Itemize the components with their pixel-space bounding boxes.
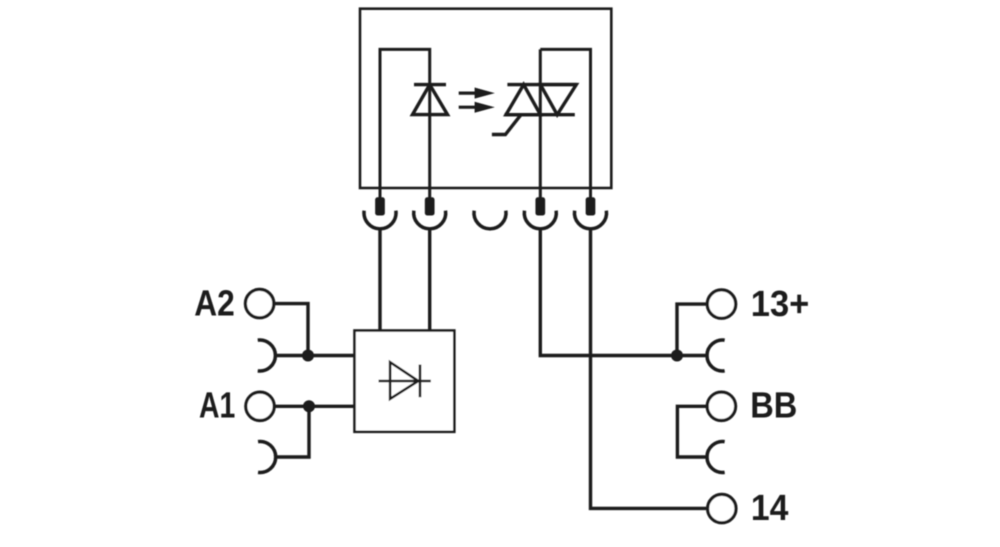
wire: A2 circle down to A2 node <box>274 304 308 356</box>
plug pin 2 <box>425 197 435 215</box>
wire: input staple (pin1 riser, top link, pin2 riser through LED) <box>380 49 430 198</box>
svg-text:A1: A1 <box>199 385 235 426</box>
clamp arc A2 <box>258 340 276 371</box>
socket 4 arc <box>524 211 556 229</box>
svg-text:14: 14 <box>751 487 789 528</box>
wire: A1 arc up to A1 node <box>276 406 309 457</box>
wire: socket 5 down and across to terminal 14 <box>591 229 709 508</box>
terminal circle A1 <box>246 392 274 420</box>
diode D2 anode/cathode line <box>379 380 431 383</box>
wire: socket 4 down and across to 13+ socket <box>540 229 707 356</box>
wire: BB bracket <box>677 406 707 457</box>
plug pin 5 stem <box>589 188 592 199</box>
plug pin 2 stem <box>428 188 431 199</box>
wire: socket 2 to diode box top <box>428 229 431 332</box>
photo-triac U1 left triangle <box>506 85 540 115</box>
plug pin 1 <box>375 197 385 215</box>
svg-text:13+: 13+ <box>751 283 810 324</box>
clamp arc A1 <box>258 442 276 473</box>
socket 5 arc <box>575 211 607 229</box>
plug pin 4 <box>535 197 545 215</box>
junction dot (13+ branch) <box>671 350 683 362</box>
socket 1 arc <box>364 211 396 229</box>
light arrow 2 <box>459 102 495 113</box>
LED D1 triangle <box>413 85 448 115</box>
wire: branch up to terminal 13+ <box>677 304 708 355</box>
photo-triac U1 right triangle <box>540 85 576 115</box>
svg-text:BB: BB <box>750 385 797 426</box>
wire: A1 circle to diode box <box>274 405 356 408</box>
socket 2 arc <box>414 211 446 229</box>
plug pin 4 stem <box>539 188 542 199</box>
junction dot A2 <box>302 350 314 362</box>
socket 3 arc (unused) <box>474 211 506 229</box>
wire: output staple (pin4 riser through triac, top link, pin5 riser) <box>540 49 590 198</box>
svg-text:A2: A2 <box>194 283 235 324</box>
terminal circle 13+ <box>707 290 735 318</box>
diode D2 cathode bar <box>419 365 422 398</box>
photo-triac U1 top line (MT2) <box>507 83 577 86</box>
light arrow 1 <box>459 88 495 99</box>
terminal circle 14 <box>708 494 736 522</box>
diode D2 triangle <box>390 362 418 399</box>
diode box <box>355 331 455 432</box>
junction dot A1 <box>303 400 315 412</box>
module outline box <box>360 9 611 188</box>
photo-triac U1 gate lead <box>492 115 521 135</box>
wire: A2 arc to diode box <box>275 354 356 357</box>
plug pin 5 <box>586 197 596 215</box>
clamp arc BB <box>707 442 725 473</box>
photo-triac U1 bottom line (MT1) <box>505 113 575 116</box>
terminal circle A2 <box>245 289 273 317</box>
clamp arc 13+ <box>707 340 725 371</box>
LED D1 cathode bar <box>414 83 446 86</box>
terminal circle BB <box>707 392 735 420</box>
wire: socket 1 to diode box top <box>378 229 381 332</box>
plug pin 1 stem <box>379 188 382 199</box>
